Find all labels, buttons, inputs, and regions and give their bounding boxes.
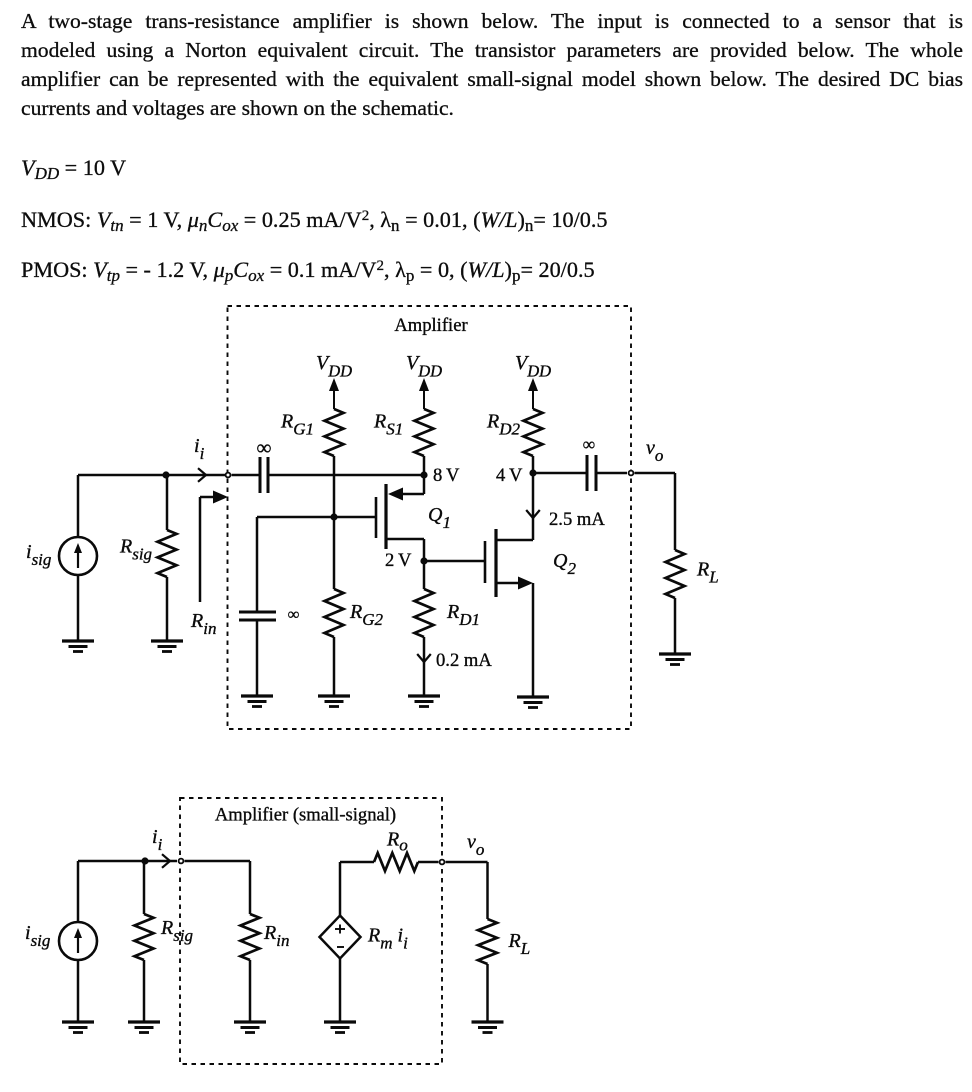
svg-text:VDD: VDD [406,352,442,381]
svg-text:VDD: VDD [515,352,551,381]
svg-text:RL: RL [696,559,719,587]
svg-text:∞: ∞ [583,434,595,454]
svg-text:Amplifier (small-signal): Amplifier (small-signal) [215,805,396,826]
svg-text:vo: vo [646,437,663,465]
svg-text:∞: ∞ [257,436,272,460]
svg-text:RD2: RD2 [486,411,520,439]
svg-text:4 V: 4 V [496,465,523,486]
svg-text:Rin: Rin [190,610,216,638]
svg-text:2.5 mA: 2.5 mA [549,509,605,530]
svg-text:0.2 mA: 0.2 mA [436,650,492,671]
svg-text:∞: ∞ [288,605,300,624]
svg-text:isig: isig [26,541,51,569]
svg-text:2 V: 2 V [385,550,412,571]
svg-text:VDD: VDD [316,352,352,381]
svg-text:RL: RL [508,930,531,958]
svg-text:Q2: Q2 [553,550,576,578]
svg-text:RS1: RS1 [373,411,403,439]
svg-text:Ro: Ro [386,829,408,855]
svg-text:Rin: Rin [263,922,289,950]
svg-text:Rsig: Rsig [119,536,152,564]
svg-text:Q1: Q1 [428,504,451,532]
svg-text:ii: ii [152,826,163,854]
svg-text:isig: isig [25,922,50,950]
svg-text:RG1: RG1 [280,411,314,439]
svg-text:Amplifier: Amplifier [394,315,468,336]
svg-text:vo: vo [467,831,484,859]
svg-text:8 V: 8 V [433,465,460,486]
svg-text:Rm ii: Rm ii [367,925,408,953]
svg-text:Rsig: Rsig [160,917,193,945]
svg-text:ii: ii [194,435,205,463]
svg-text:RD1: RD1 [446,601,480,629]
svg-text:RG2: RG2 [349,601,383,629]
